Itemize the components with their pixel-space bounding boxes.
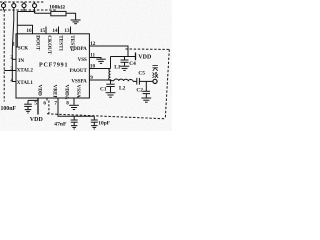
- ground for C4: [120, 66, 129, 70]
- pin 15 stub: [45, 27, 47, 34]
- svg-text:3: 3: [10, 66, 13, 72]
- svg-text:7: 7: [54, 100, 57, 106]
- ground for C2: [141, 98, 151, 102]
- wire resistor to ground: [66, 13, 76, 19]
- connector terminal 3: [22, 4, 26, 8]
- svg-text:VDD: VDD: [138, 54, 152, 60]
- VDD rail wire: [111, 56, 136, 58]
- svg-text:1: 1: [12, 42, 15, 48]
- junction terminal4 node: [34, 11, 36, 13]
- svg-text:6: 6: [43, 100, 46, 106]
- capacitor C1: [106, 80, 114, 92]
- wire branch to pin16: [17, 25, 32, 34]
- inductor L1: [109, 69, 111, 81]
- wire terminal1 stem: [3, 8, 5, 10]
- svg-text:14: 14: [52, 28, 58, 34]
- svg-text:10: 10: [90, 64, 96, 70]
- antenna symbol strokes 天: [153, 66, 158, 71]
- svg-text:11: 11: [90, 53, 95, 59]
- pin 5 VDD wire: [37, 98, 39, 115]
- dashed border top-right segment: [126, 48, 169, 50]
- wire stub pin2 DIN: [12, 58, 16, 60]
- svg-text:100nF: 100nF: [1, 106, 17, 112]
- svg-text:15: 15: [40, 28, 46, 34]
- resistor 100k: [51, 11, 66, 15]
- ground for 47nF: [71, 126, 77, 129]
- svg-text:IN: IN: [18, 58, 24, 64]
- svg-text:13: 13: [64, 28, 70, 34]
- ground for pin 11: [96, 59, 105, 63]
- connector terminal 1: [2, 4, 6, 8]
- capacitor C2: [143, 81, 150, 97]
- connector terminal 4: [33, 4, 37, 8]
- svg-text:C4: C4: [129, 61, 136, 67]
- pin 7 wire VDDA: [58, 98, 94, 116]
- ground for 100nF: [25, 110, 32, 113]
- svg-text:8: 8: [66, 100, 69, 106]
- inductor L2: [114, 79, 133, 81]
- dashed module border left vertical: [3, 10, 5, 102]
- capacitor 100nF: [24, 100, 32, 109]
- wire terminal2 to pin4 XTAL1: [12, 8, 16, 82]
- wire terminal3 stem: [23, 8, 25, 12]
- dashed border stub at pin 6: [48, 101, 50, 114]
- svg-text:SCK: SCK: [18, 46, 28, 51]
- svg-text:VDDPA: VDDPA: [70, 47, 88, 52]
- svg-text:VSS: VSS: [78, 58, 87, 63]
- svg-text:10pF: 10pF: [98, 120, 110, 126]
- svg-text:C2: C2: [136, 87, 143, 93]
- svg-text:XTAL2: XTAL2: [17, 68, 34, 73]
- capacitor 10pF: [91, 116, 98, 125]
- wire horizontal to node A: [17, 11, 34, 13]
- svg-text:4: 4: [10, 78, 13, 84]
- svg-text:100kΩ: 100kΩ: [49, 5, 66, 11]
- dashed border bottom segment: [47, 114, 165, 119]
- svg-text:PAOUT: PAOUT: [70, 69, 88, 74]
- ground for 10pF: [91, 126, 97, 129]
- svg-text:16: 16: [26, 28, 32, 34]
- dashed module border second line: [0, 9, 57, 11]
- dashed module border top line: [0, 1, 45, 3]
- pin 14 stub: [58, 27, 60, 34]
- wire L2 to C5: [133, 80, 137, 82]
- capacitor C4: [121, 57, 129, 66]
- svg-text:L1: L1: [114, 65, 121, 71]
- pin 11 wire VSS: [89, 58, 101, 59]
- IC U1 PCF7991 body: [16, 34, 89, 98]
- svg-text:47nF: 47nF: [54, 121, 67, 127]
- svg-text:2: 2: [10, 55, 13, 61]
- dashed border right segment: [165, 49, 169, 118]
- svg-text:5: 5: [34, 100, 37, 106]
- svg-text:VDD: VDD: [30, 117, 44, 123]
- svg-text:C1: C1: [100, 87, 107, 93]
- ground for pin 8: [69, 105, 79, 109]
- wire pin5 to cap 100nF: [28, 99, 38, 101]
- pin 10 wire PAOUT: [89, 68, 110, 70]
- pin 12 wire VDDP: [89, 46, 128, 57]
- pin 13 stub: [70, 27, 72, 34]
- svg-text:CKOUT: CKOUT: [46, 35, 52, 55]
- svg-text:VSSA: VSSA: [75, 85, 81, 99]
- wire rail to L1: [110, 57, 112, 69]
- svg-text:DOUT: DOUT: [34, 35, 40, 51]
- wire C5 to antenna terminal: [140, 80, 153, 82]
- svg-text:PCF7991: PCF7991: [39, 63, 68, 69]
- svg-text:TEST1: TEST1: [58, 35, 64, 51]
- capacitor C5: [137, 78, 140, 85]
- svg-text:C5: C5: [138, 70, 145, 76]
- svg-text:9: 9: [90, 75, 93, 81]
- svg-text:VDD: VDD: [36, 85, 42, 96]
- wire node A down to pin1 SCK: [16, 12, 17, 48]
- svg-text:12: 12: [90, 41, 96, 47]
- VDD rail bar: [135, 53, 137, 61]
- svg-text:L2: L2: [119, 86, 126, 92]
- junction antenna node: [110, 79, 112, 81]
- ground for C1: [106, 93, 116, 98]
- wire pin3 XTAL2 from border: [4, 70, 16, 72]
- antenna terminal: [153, 79, 157, 83]
- antenna symbol strokes 线: [153, 72, 159, 78]
- connector terminal 2: [12, 4, 16, 8]
- svg-text:VREF: VREF: [52, 85, 58, 99]
- ground for resistor: [71, 20, 81, 24]
- wire terminal4 stem: [34, 8, 36, 14]
- pin 6 stub: [46, 98, 48, 101]
- svg-text:VDDA: VDDA: [64, 85, 70, 100]
- capacitor 47nF: [71, 116, 78, 125]
- pin 8 wire VSSA: [73, 98, 75, 105]
- wire to resistor: [35, 12, 51, 14]
- svg-text:XTAL1: XTAL1: [17, 81, 34, 86]
- pin 9 wire VSSPA: [89, 79, 110, 81]
